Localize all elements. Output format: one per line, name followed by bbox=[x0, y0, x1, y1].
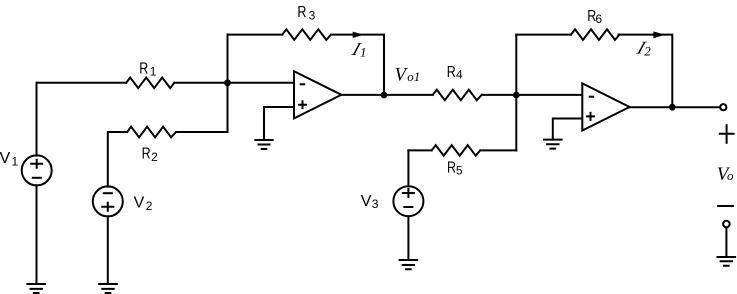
svg-text:R: R bbox=[447, 159, 456, 177]
svg-text:V: V bbox=[134, 195, 145, 212]
svg-text:3: 3 bbox=[372, 197, 379, 211]
svg-text:V: V bbox=[0, 150, 11, 167]
svg-text:2: 2 bbox=[151, 150, 158, 164]
svg-text:R: R bbox=[139, 60, 148, 78]
svg-text:1: 1 bbox=[12, 155, 19, 169]
svg-text:2: 2 bbox=[644, 44, 651, 59]
svg-text:5: 5 bbox=[456, 164, 463, 178]
svg-text:o: o bbox=[727, 168, 734, 183]
svg-text:R: R bbox=[447, 63, 456, 81]
svg-text:1: 1 bbox=[150, 65, 157, 79]
svg-text:V: V bbox=[361, 193, 372, 210]
svg-text:R: R bbox=[297, 4, 306, 22]
svg-text:3: 3 bbox=[309, 9, 316, 23]
svg-text:4: 4 bbox=[456, 68, 463, 82]
svg-text:o1: o1 bbox=[407, 69, 420, 84]
svg-text:6: 6 bbox=[595, 12, 602, 26]
svg-text:1: 1 bbox=[360, 45, 367, 60]
svg-text:2: 2 bbox=[146, 199, 153, 213]
svg-text:R: R bbox=[142, 145, 151, 163]
